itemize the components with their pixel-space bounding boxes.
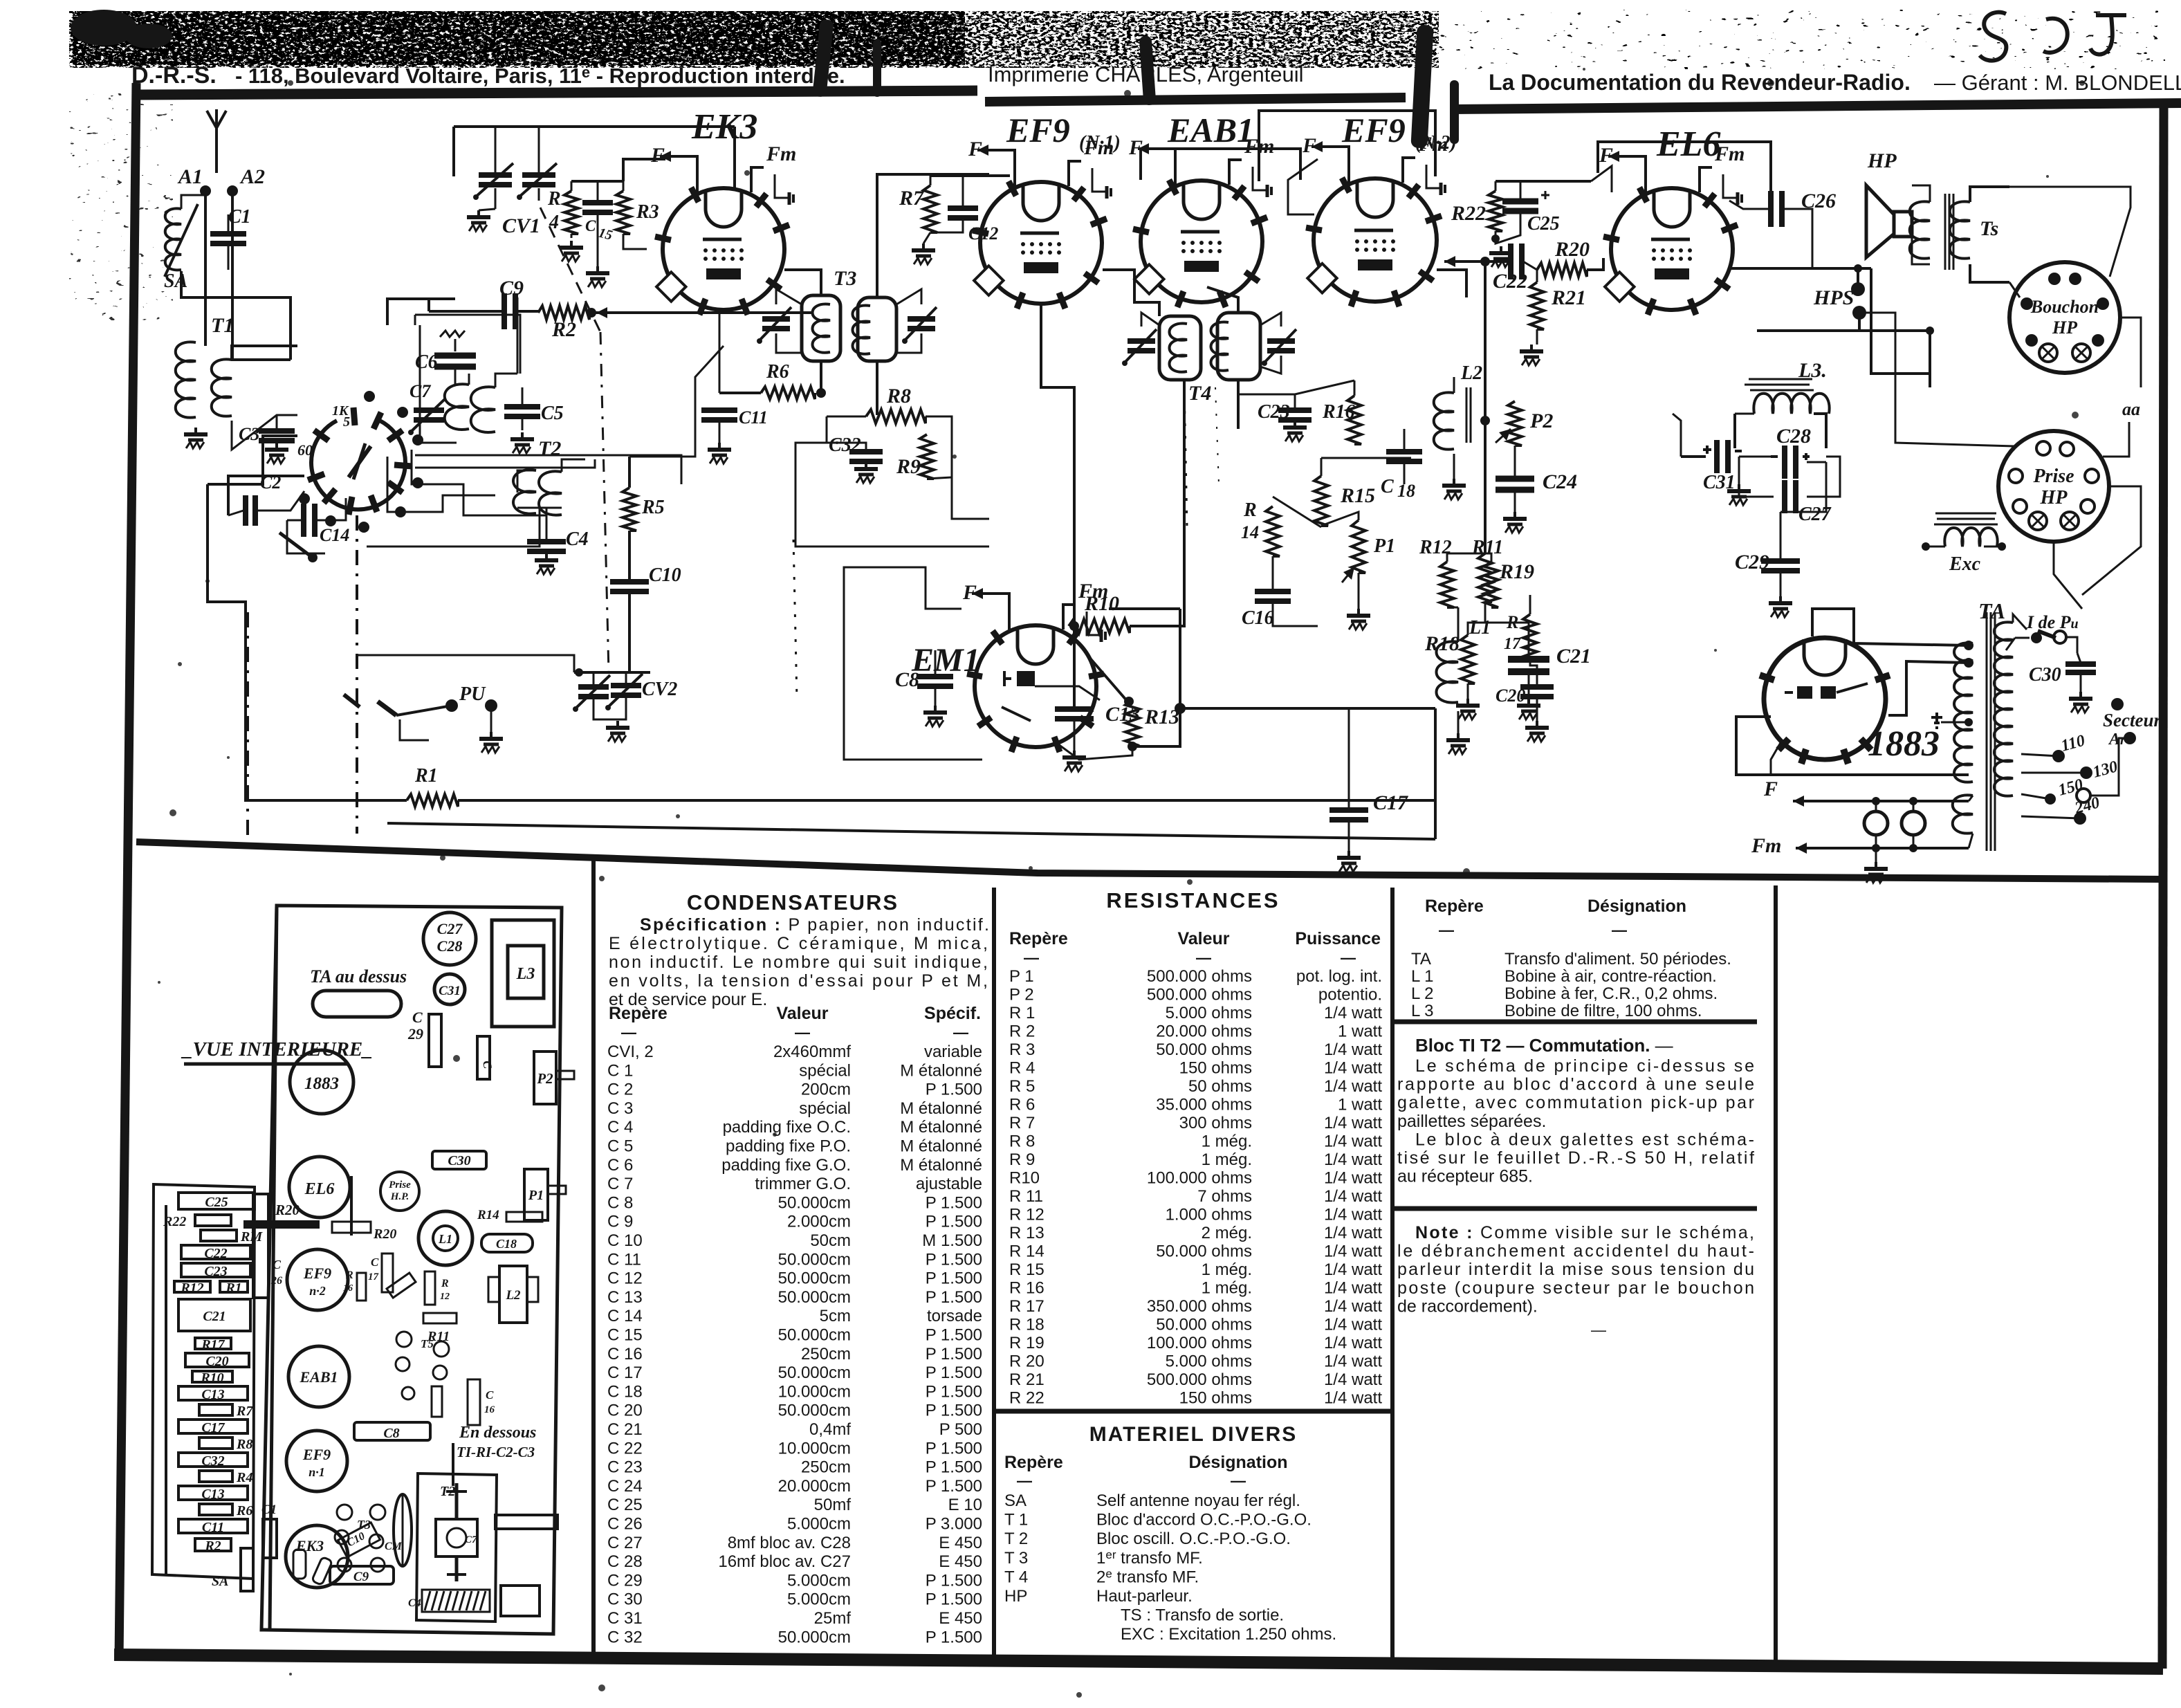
svg-text:C8: C8 bbox=[895, 668, 919, 691]
resistor R2 bbox=[538, 306, 589, 320]
svg-text:5: 5 bbox=[343, 414, 350, 430]
antenna bbox=[215, 109, 218, 173]
svg-text:Self antenne noyau fer régl.: Self antenne noyau fer régl. bbox=[1096, 1491, 1300, 1510]
svg-text:Puissance: Puissance bbox=[1295, 929, 1381, 948]
svg-text:padding fixe P.O.: padding fixe P.O. bbox=[726, 1137, 851, 1156]
svg-text:R 7: R 7 bbox=[1009, 1114, 1035, 1132]
ground mid tap TA bbox=[1931, 713, 1942, 728]
svg-text:Désignation: Désignation bbox=[1188, 1453, 1287, 1472]
svg-text:C 13: C 13 bbox=[607, 1288, 643, 1307]
svg-text:R 15: R 15 bbox=[1009, 1260, 1045, 1279]
svg-text:R 20: R 20 bbox=[1009, 1352, 1045, 1371]
svg-text:Bloc TI T2 — Commutation. —: Bloc TI T2 — Commutation. — bbox=[1415, 1035, 1673, 1056]
svg-text:1/4 watt: 1/4 watt bbox=[1324, 1169, 1382, 1188]
svg-text:R 4: R 4 bbox=[1009, 1059, 1035, 1078]
chassis rect C26 bbox=[253, 1194, 268, 1298]
svg-text:C: C bbox=[1381, 476, 1394, 497]
svg-text:C 4: C 4 bbox=[607, 1118, 633, 1137]
capacitor C12 bbox=[948, 205, 978, 211]
chassis circle Prise HP bbox=[380, 1172, 419, 1211]
svg-text:C 2: C 2 bbox=[607, 1081, 633, 1099]
svg-text:C4: C4 bbox=[408, 1597, 421, 1609]
svg-text:P 1.500: P 1.500 bbox=[926, 1590, 982, 1609]
wires EF9 no2 bbox=[1288, 159, 1318, 214]
svg-text:P 1.500: P 1.500 bbox=[926, 1458, 982, 1477]
svg-text:Repère: Repère bbox=[1425, 897, 1484, 916]
coil T1 primary bbox=[176, 342, 196, 417]
svg-text:1 watt: 1 watt bbox=[1338, 1096, 1382, 1114]
svg-text:200cm: 200cm bbox=[801, 1081, 851, 1099]
svg-text:C: C bbox=[273, 1258, 282, 1271]
chassis rect P1 bbox=[524, 1169, 548, 1220]
svg-text:C 30: C 30 bbox=[607, 1590, 643, 1609]
svg-text:ajustable: ajustable bbox=[916, 1175, 982, 1193]
svg-text:26: 26 bbox=[270, 1275, 282, 1287]
svg-text:HPS: HPS bbox=[1813, 286, 1854, 309]
ground under PU bbox=[490, 706, 493, 732]
svg-text:R 2: R 2 bbox=[1009, 1022, 1035, 1041]
svg-text:250cm: 250cm bbox=[801, 1458, 851, 1477]
variable capacitor CV2 bbox=[578, 684, 609, 690]
svg-text:C22: C22 bbox=[204, 1246, 227, 1261]
svg-text:17: 17 bbox=[1504, 635, 1521, 653]
frame bottom border bbox=[114, 1655, 2163, 1669]
svg-text:1/4 watt: 1/4 watt bbox=[1324, 1150, 1382, 1169]
wire bus to C22 bbox=[1444, 260, 1466, 263]
svg-text:R: R bbox=[1243, 499, 1257, 521]
resistor R19 bbox=[1478, 553, 1492, 602]
svg-text:14: 14 bbox=[1241, 522, 1259, 542]
svg-text:T 4: T 4 bbox=[1004, 1568, 1028, 1586]
svg-text:Valeur: Valeur bbox=[1177, 929, 1229, 948]
capacitor C15 bbox=[582, 200, 613, 205]
excitation coil Exc bbox=[1935, 513, 1996, 515]
svg-text:C 6: C 6 bbox=[607, 1156, 633, 1175]
wires T3 bbox=[784, 270, 821, 295]
svg-text:pot. log. int.: pot. log. int. bbox=[1296, 967, 1382, 986]
TA core bbox=[1986, 612, 1988, 851]
svg-text:R 9: R 9 bbox=[1009, 1150, 1035, 1169]
svg-text:C30: C30 bbox=[448, 1153, 470, 1168]
rule under bobines bbox=[1395, 1020, 1757, 1025]
tube EF9 no2 bbox=[1314, 178, 1437, 302]
svg-text:5.000cm: 5.000cm bbox=[787, 1515, 851, 1534]
svg-text:R 16: R 16 bbox=[1009, 1279, 1045, 1298]
svg-text:C1: C1 bbox=[261, 1503, 277, 1517]
svg-text:C13: C13 bbox=[201, 1487, 224, 1502]
svg-text:C32: C32 bbox=[201, 1453, 224, 1469]
svg-text:Valeur: Valeur bbox=[776, 1004, 828, 1023]
svg-text:CV1: CV1 bbox=[502, 214, 540, 237]
svg-text:50.000 ohms: 50.000 ohms bbox=[1156, 1316, 1252, 1334]
ink smear blobs bbox=[71, 10, 137, 46]
chassis circle C27 C28 bbox=[423, 912, 476, 965]
svg-text:T 2: T 2 bbox=[1004, 1530, 1028, 1548]
svg-text:R7: R7 bbox=[899, 187, 924, 210]
svg-text:P 1.500: P 1.500 bbox=[926, 1326, 982, 1345]
svg-text:P 1.500: P 1.500 bbox=[926, 1288, 982, 1307]
svg-text:C 29: C 29 bbox=[607, 1571, 643, 1590]
wire EL6 plate bus bbox=[1731, 267, 1871, 270]
svg-text:potentio.: potentio. bbox=[1318, 986, 1382, 1004]
tube EK3 bbox=[663, 188, 784, 310]
resistor R9 bbox=[920, 434, 934, 479]
wire long lower left bbox=[208, 484, 246, 626]
svg-text:C30: C30 bbox=[2029, 664, 2061, 686]
svg-text:variable: variable bbox=[924, 1043, 982, 1061]
svg-text:8mf bloc av. C28: 8mf bloc av. C28 bbox=[728, 1534, 851, 1552]
svg-text:R 8: R 8 bbox=[1009, 1132, 1035, 1151]
svg-text:E 450: E 450 bbox=[939, 1552, 982, 1571]
svg-text:1/4 watt: 1/4 watt bbox=[1324, 1352, 1382, 1371]
svg-text:P 1: P 1 bbox=[1009, 967, 1034, 986]
svg-text:HP: HP bbox=[1867, 149, 1897, 172]
svg-text:spécial: spécial bbox=[799, 1061, 851, 1080]
svg-text:Ar: Ar bbox=[2108, 731, 2126, 749]
svg-text:P2: P2 bbox=[536, 1070, 553, 1087]
resistor R21 bbox=[1530, 282, 1544, 329]
svg-text:M 1.500: M 1.500 bbox=[922, 1231, 982, 1250]
svg-text:C4: C4 bbox=[566, 529, 589, 550]
T3 trimmer left bbox=[762, 316, 790, 322]
tube EM1 bbox=[975, 625, 1096, 747]
frame left border bbox=[119, 83, 136, 1659]
svg-text:C: C bbox=[585, 217, 596, 235]
svg-text:Bouchon: Bouchon bbox=[2030, 297, 2099, 317]
svg-text:Fm: Fm bbox=[1714, 143, 1745, 165]
svg-text:R 6: R 6 bbox=[1009, 1096, 1035, 1114]
capacitor C18 bbox=[1386, 449, 1422, 454]
wire P2 bus down bbox=[1484, 261, 1487, 421]
svg-text:HP: HP bbox=[1004, 1587, 1027, 1606]
svg-text:R19: R19 bbox=[1499, 560, 1534, 583]
svg-text:EK3: EK3 bbox=[691, 107, 757, 147]
svg-text:C24: C24 bbox=[1543, 470, 1577, 493]
svg-text:1/4 watt: 1/4 watt bbox=[1324, 1114, 1382, 1132]
chassis rect R11 bbox=[423, 1313, 457, 1323]
chassis circle EK3 bbox=[286, 1525, 348, 1588]
svg-text:R21: R21 bbox=[1551, 286, 1586, 309]
svg-text:C 31: C 31 bbox=[607, 1609, 643, 1628]
svg-text:La Documentation du Revendeur-: La Documentation du Revendeur-Radio. bbox=[1489, 70, 1911, 95]
ground under C20 bbox=[1536, 721, 1538, 726]
chassis circle C31 bbox=[434, 974, 465, 1004]
svg-text:P 1.500: P 1.500 bbox=[926, 1382, 982, 1401]
svg-text:C13: C13 bbox=[201, 1387, 224, 1402]
svg-text:Fm: Fm bbox=[766, 143, 796, 165]
chassis rect C9 bbox=[330, 1566, 394, 1584]
svg-text:C 28: C 28 bbox=[607, 1552, 643, 1571]
ground under C15 bbox=[596, 266, 599, 272]
svg-text:100.000 ohms: 100.000 ohms bbox=[1147, 1334, 1252, 1352]
variable capacitor CV1 gang 1 bbox=[479, 172, 512, 178]
svg-text:1/4 watt: 1/4 watt bbox=[1324, 1132, 1382, 1151]
svg-text:C 1: C 1 bbox=[607, 1061, 633, 1080]
capacitor C24 bbox=[1496, 476, 1534, 482]
svg-text:R 1: R 1 bbox=[1009, 1004, 1035, 1022]
svg-text:150 ohms: 150 ohms bbox=[1179, 1389, 1252, 1408]
svg-text:C: C bbox=[486, 1388, 494, 1402]
wires Bouchon HP bbox=[2009, 187, 2131, 277]
svg-text:R4: R4 bbox=[236, 1470, 252, 1485]
switch lever wire bbox=[279, 533, 313, 558]
svg-text:CVI, 2: CVI, 2 bbox=[607, 1043, 654, 1061]
svg-text:C20: C20 bbox=[1496, 686, 1525, 706]
scan fold dotted line EAB1 bbox=[1215, 387, 1219, 484]
svg-text:EF9: EF9 bbox=[1006, 111, 1070, 149]
svg-text:padding fixe G.O.: padding fixe G.O. bbox=[721, 1156, 851, 1175]
svg-text:R20: R20 bbox=[373, 1227, 396, 1242]
svg-text:1/4 watt: 1/4 watt bbox=[1324, 1004, 1382, 1022]
svg-text:C 26: C 26 bbox=[607, 1515, 643, 1534]
svg-text:Fm: Fm bbox=[1417, 133, 1448, 156]
tube EL6 bbox=[1611, 188, 1733, 310]
svg-text:1/4 watt: 1/4 watt bbox=[1324, 1206, 1382, 1224]
separator line between schematic and tables bbox=[136, 842, 2164, 879]
svg-text:R 12: R 12 bbox=[1009, 1206, 1045, 1224]
coil T1 secondary bbox=[212, 359, 232, 416]
chassis circle EF9 no2 bbox=[287, 1249, 348, 1310]
chassis circle EF9 no1 bbox=[286, 1431, 347, 1491]
svg-text:E 450: E 450 bbox=[939, 1534, 982, 1552]
svg-text:1 még.: 1 még. bbox=[1202, 1260, 1252, 1279]
chassis rect C30 bbox=[432, 1151, 486, 1169]
svg-text:rapporte au bloc d'accord: rapporte au bloc d'accord à une seule bbox=[1397, 1075, 1754, 1094]
svg-text:50.000cm: 50.000cm bbox=[778, 1402, 851, 1420]
svg-text:R 17: R 17 bbox=[1009, 1297, 1045, 1316]
svg-text:C 24: C 24 bbox=[607, 1477, 643, 1496]
svg-text:1/4 watt: 1/4 watt bbox=[1324, 1370, 1382, 1389]
ground under L2 bbox=[1453, 479, 1455, 484]
svg-text:1/4 watt: 1/4 watt bbox=[1324, 1297, 1382, 1316]
svg-text:Repère: Repère bbox=[609, 1004, 668, 1023]
svg-text:2 még.: 2 még. bbox=[1202, 1224, 1252, 1242]
svg-text:C17: C17 bbox=[201, 1420, 225, 1435]
svg-text:H.P.: H.P. bbox=[390, 1191, 409, 1202]
capacitor C21 bbox=[1508, 656, 1549, 663]
svg-text:C: C bbox=[412, 1009, 423, 1026]
ground under C23 bbox=[1294, 421, 1296, 426]
svg-text:M étalonné: M étalonné bbox=[900, 1137, 982, 1156]
svg-text:M étalonné: M étalonné bbox=[900, 1156, 982, 1175]
svg-text:C6: C6 bbox=[415, 351, 438, 373]
svg-text:C 15: C 15 bbox=[607, 1326, 643, 1345]
transformer Ts core bbox=[1944, 194, 1947, 270]
TA primary winding bbox=[1994, 622, 2013, 796]
svg-text:— Gérant : M. BLONDELLE: — Gérant : M. BLONDELLE bbox=[1934, 71, 2181, 95]
svg-text:EF9: EF9 bbox=[1341, 111, 1406, 149]
chassis screws T5 bbox=[396, 1332, 412, 1347]
svg-text:R8: R8 bbox=[236, 1437, 252, 1452]
svg-text:C 5: C 5 bbox=[607, 1137, 633, 1156]
svg-text:1/4 watt: 1/4 watt bbox=[1324, 1334, 1382, 1352]
svg-text:—: — bbox=[1341, 949, 1356, 966]
EM1 enclosure wire bbox=[844, 567, 961, 643]
svg-text:1 még.: 1 még. bbox=[1202, 1150, 1252, 1169]
svg-text:RM: RM bbox=[240, 1229, 263, 1245]
capacitor C14 bbox=[301, 504, 306, 537]
svg-text:EXC : Excitation 1.250 ohms.: EXC : Excitation 1.250 ohms. bbox=[1121, 1625, 1336, 1644]
svg-text:—: — bbox=[1591, 1321, 1606, 1339]
wires 1883 bbox=[1812, 609, 1969, 645]
svg-text:10.000cm: 10.000cm bbox=[778, 1439, 851, 1458]
chassis circle 1883 bbox=[290, 1050, 353, 1114]
capacitor C4 bbox=[527, 539, 566, 544]
svg-text:—: — bbox=[1196, 949, 1211, 966]
svg-text:17: 17 bbox=[368, 1271, 379, 1283]
svg-text:C25: C25 bbox=[1527, 213, 1560, 235]
svg-text:Bloc oscill. O.C.-P.O.-G.O.: Bloc oscill. O.C.-P.O.-G.O. bbox=[1096, 1530, 1291, 1548]
wire EK3 top to bus bbox=[733, 127, 736, 188]
svg-text:M étalonné: M étalonné bbox=[900, 1118, 982, 1137]
wire bottom bus bbox=[458, 799, 1435, 802]
svg-text:Bobine à air, contre-réaction.: Bobine à air, contre-réaction. bbox=[1504, 967, 1717, 986]
svg-text:R3: R3 bbox=[636, 201, 659, 223]
capacitor C10 bbox=[610, 579, 649, 585]
svg-text:—: — bbox=[1024, 949, 1039, 966]
svg-text:C11: C11 bbox=[202, 1520, 224, 1535]
svg-text:PU: PU bbox=[459, 683, 486, 705]
svg-text:TA: TA bbox=[1978, 598, 2005, 623]
svg-text:SA: SA bbox=[1004, 1491, 1027, 1510]
header rule centre bbox=[985, 98, 1406, 102]
svg-text:C 18: C 18 bbox=[607, 1382, 643, 1401]
scan fold dotted line left bbox=[793, 540, 797, 699]
svg-text:C 21: C 21 bbox=[607, 1420, 643, 1439]
svg-text:R1: R1 bbox=[414, 765, 438, 787]
wire R10 right bbox=[1130, 379, 1184, 626]
chassis outline bbox=[261, 906, 562, 1634]
chassis dial CM bbox=[394, 1494, 412, 1566]
ground under R7 bbox=[922, 244, 925, 249]
svg-text:C 12: C 12 bbox=[607, 1269, 643, 1288]
svg-text:Spécif.: Spécif. bbox=[924, 1004, 981, 1023]
svg-text:R10: R10 bbox=[200, 1370, 223, 1386]
svg-text:L1: L1 bbox=[1469, 617, 1491, 639]
svg-text:1883: 1883 bbox=[304, 1074, 339, 1093]
svg-text:- 118, Boulevard Voltaire, Par: - 118, Boulevard Voltaire, Paris, 11e - … bbox=[235, 64, 845, 88]
svg-text:L2: L2 bbox=[505, 1288, 521, 1303]
svg-text:R 22: R 22 bbox=[1009, 1389, 1045, 1408]
wire HPS down bbox=[1858, 318, 1861, 331]
scan fold dotted line middle bbox=[1184, 386, 1187, 527]
svg-text:2.000cm: 2.000cm bbox=[787, 1213, 851, 1231]
wires electrolytic bank bbox=[1681, 455, 1706, 458]
rotary band switch bbox=[311, 421, 405, 510]
ground under CV1 bbox=[477, 210, 480, 216]
svg-text:5.000 ohms: 5.000 ohms bbox=[1166, 1352, 1252, 1371]
svg-text:T5: T5 bbox=[421, 1337, 434, 1350]
svg-text:50.000 ohms: 50.000 ohms bbox=[1156, 1242, 1252, 1261]
svg-text:Fm: Fm bbox=[1751, 834, 1781, 857]
svg-text:Prise: Prise bbox=[389, 1179, 411, 1191]
wire A1 down bbox=[204, 191, 207, 346]
svg-text:50mf: 50mf bbox=[814, 1496, 852, 1514]
svg-text:R1: R1 bbox=[225, 1280, 241, 1296]
svg-text:1/4 watt: 1/4 watt bbox=[1324, 1260, 1382, 1279]
svg-text:n·1: n·1 bbox=[309, 1465, 325, 1479]
svg-text:1/4 watt: 1/4 watt bbox=[1324, 1077, 1382, 1096]
svg-text:R18: R18 bbox=[1424, 632, 1460, 655]
block outline wires bbox=[420, 325, 457, 443]
svg-text:R12: R12 bbox=[180, 1280, 203, 1296]
chassis screws T3 bbox=[337, 1505, 352, 1520]
wires R7 C12 bbox=[930, 176, 932, 185]
svg-text:Spécification : P papier, non: Spécification : P papier, non inductif. bbox=[640, 915, 989, 935]
svg-text:F: F bbox=[1763, 778, 1778, 800]
svg-text:C 9: C 9 bbox=[607, 1213, 633, 1231]
svg-text:EK3: EK3 bbox=[295, 1537, 324, 1554]
svg-text:100.000 ohms: 100.000 ohms bbox=[1147, 1169, 1252, 1188]
capacitor C26 bbox=[1768, 191, 1774, 227]
svg-text:5.000cm: 5.000cm bbox=[787, 1590, 851, 1609]
capacitor C13 bbox=[1055, 706, 1094, 712]
svg-text:D.-R.-S.: D.-R.-S. bbox=[131, 62, 217, 89]
svg-text:R7: R7 bbox=[236, 1404, 253, 1419]
svg-text:EM1: EM1 bbox=[911, 642, 980, 679]
svg-text:16: 16 bbox=[484, 1404, 495, 1415]
svg-text:P 2: P 2 bbox=[1009, 986, 1034, 1004]
chassis circle EL6 bbox=[289, 1157, 350, 1218]
svg-text:EAB1: EAB1 bbox=[299, 1368, 338, 1386]
svg-text:P1: P1 bbox=[1373, 535, 1395, 557]
svg-text:HP: HP bbox=[2052, 318, 2078, 338]
wires R6 bbox=[719, 392, 761, 394]
svg-text:1 még.: 1 még. bbox=[1202, 1132, 1252, 1151]
ground under lamps bbox=[1875, 848, 1877, 862]
wire mid horizontal buses bbox=[988, 174, 990, 519]
svg-text:EL6: EL6 bbox=[1656, 125, 1720, 164]
svg-text:R14: R14 bbox=[477, 1208, 499, 1222]
svg-text:29: 29 bbox=[407, 1025, 423, 1043]
svg-text:P 1.500: P 1.500 bbox=[926, 1213, 982, 1231]
ground under C21 bbox=[1527, 699, 1530, 704]
EL6 top box wire bbox=[1591, 166, 1612, 192]
svg-text:EL6: EL6 bbox=[304, 1180, 335, 1198]
chassis cluster C16 bbox=[402, 1387, 414, 1399]
svg-text:C18: C18 bbox=[496, 1237, 517, 1251]
capacitor C25 bbox=[1502, 199, 1538, 205]
svg-text:300 ohms: 300 ohms bbox=[1179, 1114, 1252, 1132]
svg-text:50.000cm: 50.000cm bbox=[778, 1193, 851, 1212]
svg-text:R8: R8 bbox=[886, 385, 911, 407]
tube EF9 no1 bbox=[980, 182, 1102, 304]
mechanical gang dashed line bbox=[356, 515, 358, 834]
svg-text:R2: R2 bbox=[204, 1539, 221, 1554]
svg-text:C10: C10 bbox=[649, 564, 681, 586]
svg-text:20.000 ohms: 20.000 ohms bbox=[1156, 1022, 1252, 1041]
T4 trimmer right bbox=[1267, 338, 1295, 344]
svg-text:5cm: 5cm bbox=[820, 1307, 851, 1325]
svg-text:CV2: CV2 bbox=[642, 679, 677, 700]
scan noise band top bbox=[69, 11, 1439, 68]
svg-text:2e transfo MF.: 2e transfo MF. bbox=[1096, 1567, 1199, 1586]
svg-text:L 3: L 3 bbox=[1411, 1002, 1433, 1020]
svg-text:C11: C11 bbox=[739, 407, 768, 428]
ground under C11 bbox=[718, 443, 721, 448]
svg-text:C 11: C 11 bbox=[607, 1250, 641, 1269]
svg-text:T1: T1 bbox=[211, 314, 234, 337]
svg-text:—: — bbox=[621, 1024, 636, 1041]
svg-text:A1: A1 bbox=[177, 165, 203, 188]
svg-text:Transfo d'aliment. 50 périodes: Transfo d'aliment. 50 périodes. bbox=[1504, 950, 1731, 968]
wire oscillator top bbox=[387, 299, 455, 325]
svg-text:1/4 watt: 1/4 watt bbox=[1324, 1059, 1382, 1078]
svg-text:Désignation: Désignation bbox=[1588, 897, 1686, 916]
svg-text:C20: C20 bbox=[205, 1354, 228, 1369]
svg-text:12: 12 bbox=[440, 1292, 450, 1302]
svg-text:50cm: 50cm bbox=[810, 1231, 851, 1250]
